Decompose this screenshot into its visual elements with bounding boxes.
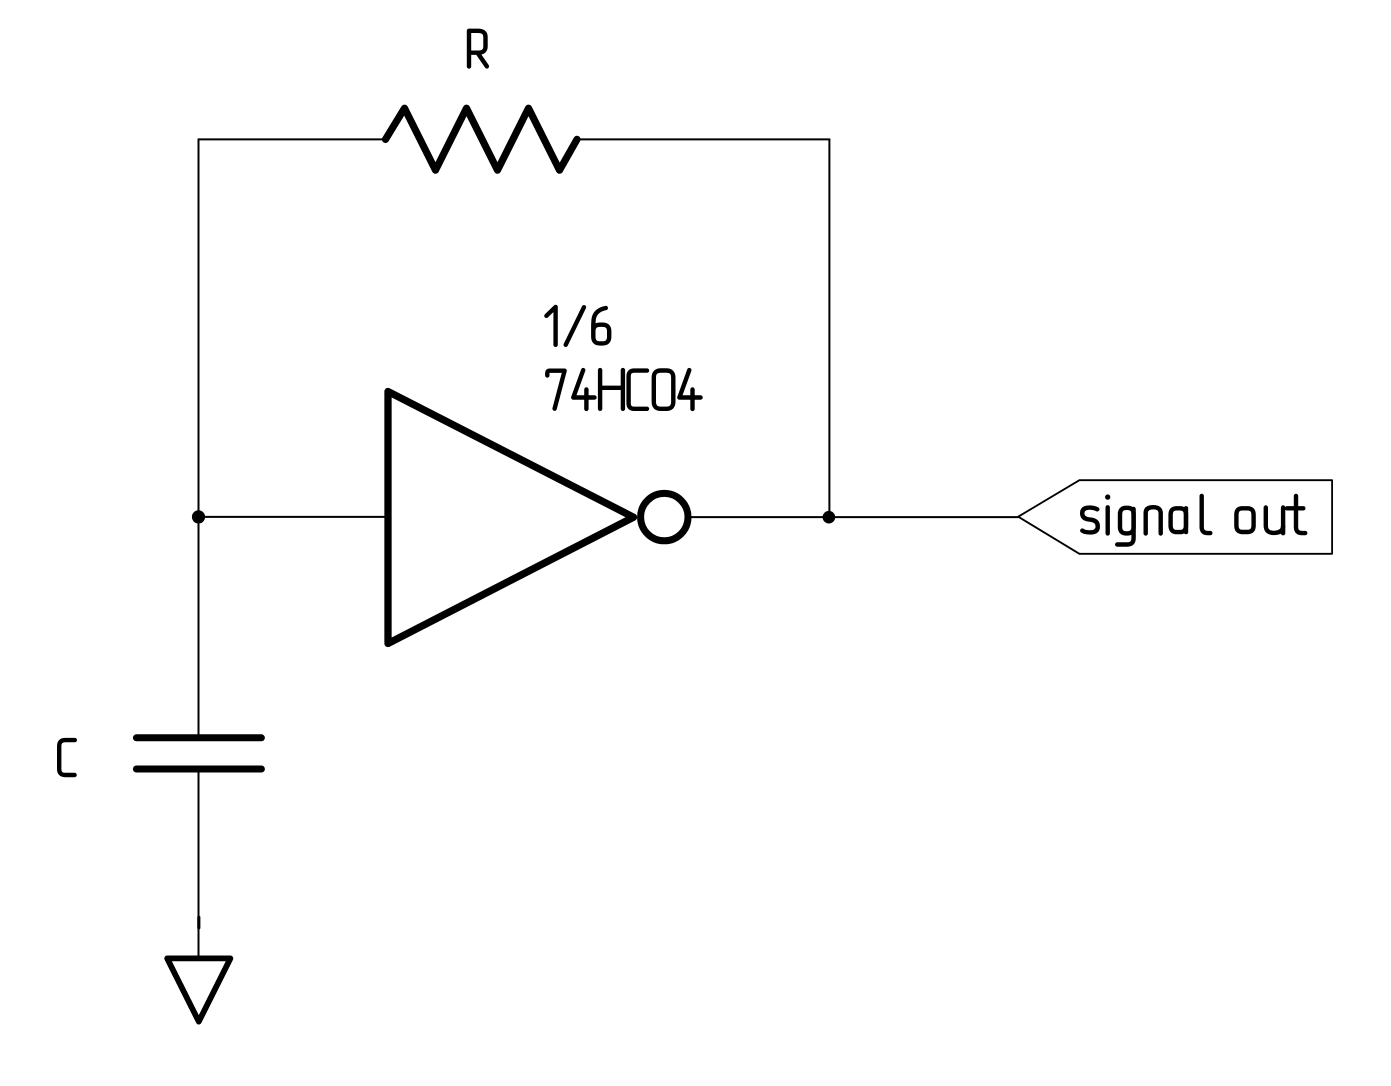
node B junction dot (output node) (823, 511, 836, 524)
net label signal out text (1082, 496, 1305, 545)
label R (469, 31, 487, 67)
inverter U1 triangle (388, 392, 634, 644)
wire top-left horizontal (node A to R left lead) (199, 138, 386, 140)
wire left vertical lower (C to ground) (198, 769, 200, 956)
ground (167, 958, 230, 1021)
net label signal out flag outline (1018, 480, 1332, 554)
ground pin stub (197, 917, 200, 927)
label 1/6 (546, 307, 609, 345)
label 74HC04 (547, 370, 700, 409)
wire left vertical upper (node A up to R) (198, 139, 200, 736)
resistor R (386, 108, 578, 170)
wire inverter output horizontal to flag (692, 516, 1019, 518)
capacitor C (136, 738, 261, 769)
inverter U1 output bubble (641, 493, 688, 540)
wire top-right horizontal (R right lead to right bus) (577, 138, 829, 140)
wire right vertical (feedback) (828, 139, 830, 517)
node A junction dot (input node) (192, 510, 205, 523)
label C (59, 740, 75, 775)
wire inverter input horizontal (199, 516, 389, 518)
